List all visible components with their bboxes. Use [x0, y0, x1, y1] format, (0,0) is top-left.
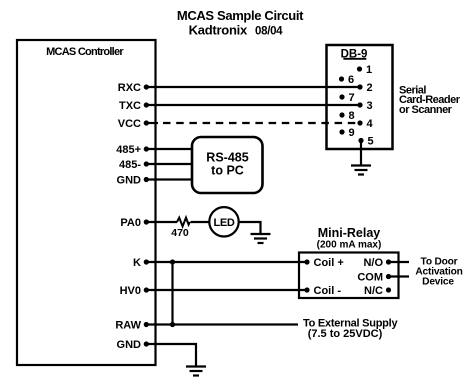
wire K to Coil+: [146, 261, 307, 263]
svg-text:6: 6: [348, 74, 354, 86]
DB9 pin 1: [357, 64, 372, 76]
svg-text:LED: LED: [213, 217, 234, 229]
svg-text:PA0: PA0: [120, 217, 141, 229]
wire 485+ to RS-485: [146, 148, 193, 150]
svg-text:K: K: [133, 257, 141, 269]
svg-text:N/C: N/C: [364, 285, 383, 297]
svg-text:to PC: to PC: [211, 164, 244, 178]
svg-text:TXC: TXC: [119, 100, 141, 112]
relay Coil+ terminal: [304, 257, 343, 269]
DB9 pin 9: [339, 127, 354, 139]
svg-text:(200 mA max): (200 mA max): [317, 240, 382, 251]
wire K to RAW vertical: [171, 262, 173, 325]
ground bottom: [186, 367, 206, 376]
DB9 pin 5: [358, 136, 373, 148]
svg-text:GND: GND: [117, 175, 142, 187]
pin GND lower: [117, 339, 149, 351]
door caption: [415, 257, 462, 288]
wire RAW to supply: [146, 323, 298, 325]
resistor R 470: [177, 218, 190, 227]
wire DB9 pin 5 to ground: [360, 141, 362, 166]
svg-text:RXC: RXC: [118, 82, 141, 94]
wire GND to ground: [147, 344, 196, 367]
wire RXC to DB9 pin 2: [146, 86, 360, 88]
junction K wire: [170, 259, 175, 264]
relay COM terminal: [357, 272, 391, 284]
svg-text:or Scanner: or Scanner: [399, 104, 453, 116]
DB9 pin 3: [357, 100, 372, 112]
pin RXC: [118, 82, 149, 94]
DB9 pin 6: [339, 74, 354, 86]
svg-text:Coil +: Coil +: [314, 257, 344, 269]
pin RAW: [115, 320, 149, 332]
wire resistor to LED: [191, 221, 210, 223]
svg-text:Kadtronix: Kadtronix: [189, 23, 248, 38]
DB-9 box: [327, 45, 393, 149]
svg-text:1: 1: [366, 64, 372, 76]
svg-text:485+: 485+: [116, 144, 141, 156]
DB9 pin 2: [357, 82, 372, 94]
wire VCC dashed to DB9 pin 4: [163, 122, 360, 124]
svg-text:COM: COM: [357, 272, 383, 284]
MCAS controller box: [17, 40, 156, 365]
svg-text:2: 2: [367, 82, 373, 94]
serial card reader caption: [399, 85, 461, 116]
DB9 pin 7: [339, 92, 354, 104]
wire TXC to DB9 pin 3: [146, 104, 360, 106]
DB9 pin 4: [357, 118, 373, 130]
svg-text:Device: Device: [422, 277, 454, 288]
svg-text:Mini-Relay: Mini-Relay: [318, 226, 381, 240]
svg-text:9: 9: [349, 127, 355, 139]
wire COM lead: [389, 275, 410, 277]
RS-485 box: [192, 137, 263, 193]
wire VCC solid stub: [146, 122, 158, 124]
ground below DB-9: [351, 166, 371, 175]
svg-text:GND: GND: [117, 339, 142, 351]
relay K1 box: [299, 253, 399, 299]
junction RAW wire: [170, 322, 175, 327]
pin HV0: [120, 285, 149, 297]
pin 485-: [119, 159, 149, 171]
pin GND upper: [117, 175, 149, 187]
pin 485+: [116, 144, 149, 156]
svg-text:485-: 485-: [119, 159, 141, 171]
relay N/O terminal: [363, 257, 391, 269]
svg-text:Coil -: Coil -: [314, 285, 342, 297]
wire HV0 to Coil-: [146, 289, 307, 291]
svg-text:7: 7: [349, 92, 355, 104]
svg-text:5: 5: [368, 136, 374, 148]
svg-text:3: 3: [367, 100, 373, 112]
pin K: [133, 257, 149, 269]
wire 485- to RS-485: [146, 163, 193, 165]
pin PA0: [120, 217, 148, 229]
relay N/C terminal: [364, 285, 391, 297]
svg-text:8: 8: [349, 110, 355, 122]
wire N/O lead: [389, 261, 410, 263]
relay Coil- terminal: [304, 285, 341, 297]
DB-9 label underline: [343, 58, 366, 60]
svg-text:08/04: 08/04: [255, 26, 283, 38]
wire PA0 to resistor: [146, 221, 177, 223]
pin TXC: [119, 100, 149, 112]
pin VCC: [118, 118, 149, 130]
svg-text:(7.5 to 25VDC): (7.5 to 25VDC): [308, 328, 383, 340]
svg-text:4: 4: [367, 118, 374, 130]
svg-text:RS-485: RS-485: [206, 151, 248, 165]
svg-text:MCAS Controller: MCAS Controller: [46, 46, 124, 58]
LED D1: [209, 207, 238, 236]
svg-text:HV0: HV0: [120, 285, 141, 297]
DB9 pin 8: [339, 110, 354, 122]
svg-text:470: 470: [171, 227, 189, 239]
ground right of LED: [251, 234, 271, 243]
svg-text:N/O: N/O: [363, 257, 383, 269]
svg-text:MCAS Sample Circuit: MCAS Sample Circuit: [177, 8, 304, 23]
svg-text:RAW: RAW: [115, 320, 141, 332]
wire GND to RS-485: [146, 178, 193, 180]
wire LED to ground: [239, 222, 261, 234]
svg-text:VCC: VCC: [118, 118, 141, 130]
